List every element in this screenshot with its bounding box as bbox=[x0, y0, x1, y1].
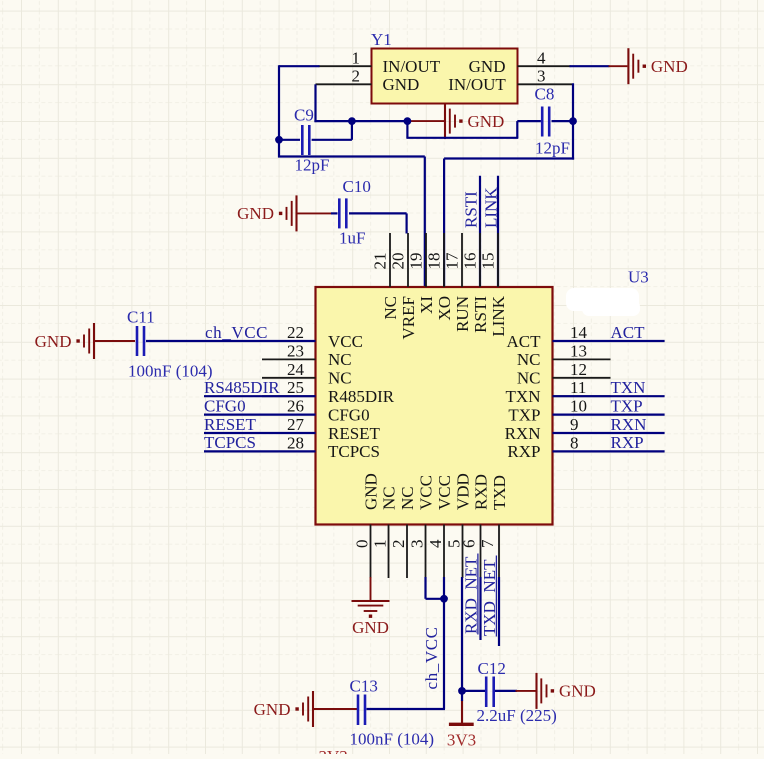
value 100nF (104) (C11) bbox=[128, 362, 213, 381]
svg-text:NC: NC bbox=[517, 350, 541, 369]
value 1uF bbox=[339, 229, 365, 248]
svg-text:25: 25 bbox=[287, 378, 304, 397]
wire TXD stub bbox=[498, 577, 500, 646]
svg-text:3: 3 bbox=[537, 67, 546, 86]
junction at C9 left bbox=[275, 136, 283, 144]
U3 pin 15 stub bbox=[497, 233, 499, 287]
U3 pin 18 stub bbox=[443, 233, 445, 287]
U3 pin name TCPCS bbox=[328, 442, 380, 461]
svg-text:3: 3 bbox=[408, 540, 427, 549]
svg-text:11: 11 bbox=[570, 378, 586, 397]
U3 pin name TXD (bottom) bbox=[490, 475, 509, 510]
wire pin3 down bbox=[572, 83, 574, 159]
svg-text:RXP: RXP bbox=[611, 433, 644, 452]
svg-text:C13: C13 bbox=[350, 677, 378, 696]
U3 pin name NC (bottom) bbox=[380, 486, 399, 510]
net label RXN bbox=[611, 415, 647, 434]
U3 pin 26 stub bbox=[262, 414, 316, 416]
net label LINK bbox=[481, 187, 500, 228]
U3 pin number 21 bbox=[371, 253, 390, 270]
svg-text:4: 4 bbox=[426, 539, 445, 548]
designator C11 bbox=[127, 308, 155, 327]
svg-text:C8: C8 bbox=[535, 85, 555, 104]
svg-text:20: 20 bbox=[389, 253, 408, 270]
svg-text:LINK: LINK bbox=[481, 187, 500, 228]
svg-text:CFG0: CFG0 bbox=[204, 396, 246, 415]
svg-text:R485DIR: R485DIR bbox=[328, 387, 395, 406]
svg-text:RESET: RESET bbox=[204, 415, 257, 434]
svg-text:12pF: 12pF bbox=[535, 139, 570, 158]
svg-text:4: 4 bbox=[537, 49, 546, 68]
U3 pin name RSTI (top) bbox=[471, 296, 490, 333]
svg-text:24: 24 bbox=[287, 360, 305, 379]
U3 pin 25 stub bbox=[262, 395, 316, 397]
U3 pin name VREF (top) bbox=[399, 296, 418, 339]
svg-text:2: 2 bbox=[352, 67, 361, 86]
U3 pin number 25 bbox=[287, 378, 304, 397]
svg-text:10: 10 bbox=[570, 397, 587, 416]
svg-text:GND: GND bbox=[352, 618, 389, 637]
net label RXD_NET bbox=[461, 554, 480, 635]
svg-text:28: 28 bbox=[287, 433, 304, 452]
U3 pin number 22 bbox=[287, 323, 304, 342]
wire VDD down bbox=[461, 577, 463, 691]
svg-text:LINK: LINK bbox=[489, 295, 508, 336]
svg-text:26: 26 bbox=[287, 397, 304, 416]
U3 pin number 7 bbox=[478, 539, 497, 548]
svg-text:TCPCS: TCPCS bbox=[204, 433, 256, 452]
wire VCC pin3 branch bbox=[426, 577, 445, 599]
power symbol 3V3 bbox=[447, 690, 476, 749]
svg-text:3V3: 3V3 bbox=[447, 730, 476, 749]
Y1 pin name GND (pin 4) bbox=[469, 57, 506, 76]
svg-text:ACT: ACT bbox=[507, 332, 542, 351]
ground symbol (C13) bbox=[254, 691, 357, 727]
U3 pin number 4 bbox=[426, 539, 445, 548]
U3 pin number 20 bbox=[389, 253, 408, 270]
wire TCPCS bbox=[204, 450, 316, 452]
svg-text:23: 23 bbox=[287, 341, 304, 360]
svg-text:XO: XO bbox=[435, 296, 454, 321]
junction pin2/GND bbox=[404, 117, 412, 125]
U3 pin name RXP (right) bbox=[507, 442, 540, 461]
svg-text:18: 18 bbox=[425, 253, 444, 270]
designator Y1 bbox=[371, 30, 392, 49]
wire TXN bbox=[553, 395, 665, 397]
svg-text:13: 13 bbox=[570, 341, 587, 360]
svg-text:VREF: VREF bbox=[399, 296, 418, 339]
op-amp U3 body bbox=[316, 287, 553, 525]
svg-text:NC: NC bbox=[398, 486, 417, 510]
wire XO net bbox=[444, 159, 574, 289]
value 12pF (C9) bbox=[295, 155, 330, 174]
U3 pin number 17 bbox=[443, 252, 462, 270]
ground symbol (C10) bbox=[237, 195, 337, 231]
U3 pin number 3 bbox=[408, 540, 427, 549]
svg-text:1: 1 bbox=[352, 49, 361, 68]
U3 pin number 23 bbox=[287, 341, 304, 360]
U3 pin 27 stub bbox=[262, 432, 316, 434]
U3 pin number 18 bbox=[425, 253, 444, 270]
svg-text:VCC: VCC bbox=[435, 475, 454, 510]
U3 pin name RESET bbox=[328, 424, 381, 443]
svg-text:NC: NC bbox=[328, 369, 352, 388]
net label RESET bbox=[204, 415, 257, 434]
U3 pin name RUN (top) bbox=[453, 296, 472, 332]
U3 pin number 11 bbox=[570, 378, 586, 397]
U3 pin name NC (right) bbox=[517, 369, 541, 388]
net label TXN bbox=[611, 378, 646, 397]
Y1 pin name IN/OUT (pin 3) bbox=[448, 75, 506, 94]
net label TCPCS bbox=[204, 433, 256, 452]
U3 pin 6 stub bbox=[480, 525, 482, 579]
net label ACT bbox=[611, 323, 646, 342]
svg-text:6: 6 bbox=[460, 540, 479, 549]
U3 pin 2 stub bbox=[406, 525, 408, 579]
U3 pin 16 stub bbox=[479, 233, 481, 287]
designator C9 bbox=[294, 105, 314, 124]
U3 pin number 15 bbox=[479, 253, 498, 270]
ground symbol (C11) bbox=[35, 323, 135, 359]
U3 pin name GND (bottom) bbox=[362, 473, 381, 510]
svg-text:GND: GND bbox=[237, 204, 274, 223]
svg-text:RXD: RXD bbox=[472, 474, 491, 510]
svg-text:19: 19 bbox=[407, 253, 426, 270]
U3 pin name XO (top) bbox=[435, 296, 454, 321]
svg-text:NC: NC bbox=[380, 486, 399, 510]
svg-text:100nF (104): 100nF (104) bbox=[350, 730, 435, 749]
U3 pin 28 stub bbox=[262, 450, 316, 452]
Y1 pin name IN/OUT (pin 1) bbox=[383, 57, 441, 76]
svg-text:RSTI: RSTI bbox=[462, 191, 481, 228]
U3 pin number 1 bbox=[371, 540, 390, 549]
svg-text:1: 1 bbox=[371, 540, 390, 549]
U3 pin 11 stub bbox=[553, 395, 611, 397]
U3 pin number 13 bbox=[570, 341, 587, 360]
U3 pin name R485DIR bbox=[328, 387, 395, 406]
wire RXP bbox=[553, 450, 665, 452]
U3 pin name NC (bottom) bbox=[398, 486, 417, 510]
capacitor C9 bbox=[302, 125, 309, 155]
U3 pin name RXD (bottom) bbox=[472, 474, 491, 510]
U3 pin 19 stub bbox=[425, 233, 427, 287]
wire C10 to VREF bbox=[349, 213, 407, 233]
svg-text:NC: NC bbox=[517, 369, 541, 388]
svg-text:2.2uF (225): 2.2uF (225) bbox=[477, 706, 557, 725]
wire gnd loop bbox=[406, 121, 541, 138]
U3 pin number 26 bbox=[287, 397, 304, 416]
U3 pin name VCC bbox=[328, 332, 363, 351]
Y1 pin 3 bbox=[518, 67, 573, 86]
svg-text:RXN: RXN bbox=[505, 424, 541, 443]
U3 pin 5 stub bbox=[462, 525, 464, 579]
svg-text:VCC: VCC bbox=[417, 475, 436, 510]
U3 pin name TXN (right) bbox=[506, 387, 541, 406]
svg-text:GND: GND bbox=[468, 112, 505, 131]
svg-text:RXN: RXN bbox=[611, 415, 647, 434]
U3 pin name XI (top) bbox=[417, 296, 436, 314]
U3 pin name VDD (bottom) bbox=[454, 473, 473, 510]
svg-text:100nF (104): 100nF (104) bbox=[128, 362, 213, 381]
svg-text:RS485DIR: RS485DIR bbox=[204, 378, 280, 397]
value 2.2uF (225) bbox=[477, 706, 557, 725]
svg-text:RSTI: RSTI bbox=[471, 296, 490, 333]
capacitor C8 bbox=[542, 107, 549, 137]
svg-text:ACT: ACT bbox=[611, 323, 646, 342]
svg-text:C12: C12 bbox=[478, 659, 506, 678]
svg-text:C10: C10 bbox=[343, 177, 371, 196]
svg-text:ch_VCC: ch_VCC bbox=[205, 323, 268, 342]
wire pin1 to C9 left (vertical) bbox=[279, 65, 320, 157]
svg-text:GND: GND bbox=[469, 57, 506, 76]
net label CFG0 bbox=[204, 396, 246, 415]
ground symbol (U3 GND pin) bbox=[352, 577, 390, 637]
svg-text:VCC: VCC bbox=[328, 332, 363, 351]
wire RSTI bbox=[479, 176, 481, 288]
svg-text:8: 8 bbox=[570, 433, 579, 452]
U3 pin name ACT (right) bbox=[507, 332, 542, 351]
U3 pin 24 stub bbox=[262, 377, 316, 379]
svg-text:RESET: RESET bbox=[328, 424, 381, 443]
net label TXD_NET bbox=[480, 556, 499, 637]
svg-text:IN/OUT: IN/OUT bbox=[448, 75, 506, 94]
U3 pin name RXN (right) bbox=[505, 424, 541, 443]
U3 pin number 24 bbox=[287, 360, 305, 379]
wire RESET bbox=[204, 432, 316, 434]
U3 pin name VCC (bottom) bbox=[435, 475, 454, 510]
junction C8/pin3 bbox=[569, 117, 577, 125]
U3 pin number 16 bbox=[461, 253, 480, 270]
svg-text:3V3: 3V3 bbox=[319, 747, 348, 754]
junction pin2/C9 bbox=[348, 117, 356, 125]
U3 pin name NC bbox=[328, 350, 352, 369]
svg-text:16: 16 bbox=[461, 253, 480, 270]
U3 pin number 0 bbox=[353, 540, 372, 549]
svg-text:C11: C11 bbox=[127, 308, 155, 327]
U3 pin 12 stub bbox=[553, 377, 611, 379]
wire XI net bbox=[278, 157, 425, 289]
white patch bbox=[566, 288, 640, 316]
net label RSTI bbox=[462, 191, 481, 228]
svg-text:TXN: TXN bbox=[506, 387, 541, 406]
wire ch_VCC vertical bbox=[367, 577, 446, 709]
wire CFG0 bbox=[204, 414, 316, 416]
capacitor C10 bbox=[339, 198, 346, 228]
svg-text:NC: NC bbox=[328, 350, 352, 369]
U3 pin number 27 bbox=[287, 415, 305, 434]
svg-text:GND: GND bbox=[35, 332, 72, 351]
svg-text:TXP: TXP bbox=[611, 396, 643, 415]
value 12pF (C8) bbox=[535, 139, 570, 158]
svg-text:21: 21 bbox=[371, 253, 390, 270]
wire pin4 to GND bbox=[570, 65, 610, 67]
net label ch_VCC bbox=[205, 323, 268, 342]
capacitor C12 bbox=[486, 677, 494, 708]
U3 pin name NC bbox=[328, 369, 352, 388]
U3 pin number 8 bbox=[570, 433, 579, 452]
net label TXP bbox=[611, 396, 643, 415]
wire pin2 down bbox=[314, 84, 316, 122]
U3 pin name TXP (right) bbox=[508, 405, 540, 424]
net label RS485DIR bbox=[204, 378, 280, 397]
U3 pin 9 stub bbox=[553, 432, 611, 434]
U3 pin 10 stub bbox=[553, 414, 611, 416]
svg-text:Y1: Y1 bbox=[371, 30, 392, 49]
svg-text:14: 14 bbox=[570, 323, 588, 342]
svg-text:TXD: TXD bbox=[490, 475, 509, 510]
svg-text:VDD: VDD bbox=[454, 473, 473, 510]
U3 pin 14 stub bbox=[553, 340, 611, 342]
svg-text:GND: GND bbox=[254, 700, 291, 719]
U3 pin name LINK (top) bbox=[489, 295, 508, 336]
U3 pin 20 stub bbox=[407, 233, 409, 287]
svg-text:TXP: TXP bbox=[508, 405, 540, 424]
U3 pin number 19 bbox=[407, 253, 426, 270]
svg-text:1uF: 1uF bbox=[339, 229, 365, 248]
U3 pin number 6 bbox=[460, 540, 479, 549]
wire VDD to C12 bbox=[462, 690, 485, 692]
power label 3V3 (clipped, bottom) bbox=[319, 747, 348, 759]
U3 pin 7 stub bbox=[498, 525, 500, 579]
U3 pin 22 stub bbox=[262, 340, 316, 342]
svg-text:12pF: 12pF bbox=[295, 155, 330, 174]
designator C10 bbox=[343, 177, 371, 196]
svg-text:7: 7 bbox=[478, 539, 497, 548]
U3 pin number 5 bbox=[445, 540, 464, 549]
U3 pin number 9 bbox=[570, 415, 579, 434]
svg-text:ch_VCC: ch_VCC bbox=[422, 626, 441, 689]
designator C13 bbox=[350, 677, 378, 696]
U3 pin name NC (top) bbox=[381, 296, 400, 320]
wire RS485DIR bbox=[204, 395, 316, 397]
svg-text:RUN: RUN bbox=[453, 296, 472, 332]
Y1 pin 4 bbox=[518, 49, 571, 68]
svg-text:CFG0: CFG0 bbox=[328, 405, 370, 424]
U3 pin 1 stub bbox=[388, 525, 390, 579]
U3 pin 3 stub bbox=[425, 525, 427, 579]
net label ch_VCC (vertical) bbox=[422, 626, 441, 689]
U3 pin number 14 bbox=[570, 323, 588, 342]
ground symbol (crystal) bbox=[408, 103, 504, 139]
designator C12 bbox=[478, 659, 506, 678]
junction VCC pins bbox=[440, 595, 448, 603]
wire LINK bbox=[497, 176, 499, 288]
U3 pin number 28 bbox=[287, 433, 304, 452]
U3 pin 4 stub bbox=[443, 525, 445, 579]
svg-text:12: 12 bbox=[570, 360, 587, 379]
wire C9 right bbox=[312, 120, 352, 140]
U3 pin number 10 bbox=[570, 397, 587, 416]
U3 pin number 2 bbox=[389, 540, 408, 549]
U3 pin 17 stub bbox=[461, 233, 463, 287]
svg-text:22: 22 bbox=[287, 323, 304, 342]
crystal Y1 body bbox=[372, 49, 518, 104]
U3 pin 21 stub bbox=[389, 233, 391, 287]
U3 pin 8 stub bbox=[553, 450, 611, 452]
svg-text:RXP: RXP bbox=[507, 442, 540, 461]
svg-text:27: 27 bbox=[287, 415, 305, 434]
svg-text:17: 17 bbox=[443, 252, 462, 270]
Y1 pin 2 bbox=[316, 67, 372, 86]
svg-text:IN/OUT: IN/OUT bbox=[383, 57, 441, 76]
svg-text:15: 15 bbox=[479, 253, 498, 270]
Y1 pin name GND (pin 2) bbox=[383, 75, 420, 94]
junction VDD/C12 bbox=[458, 687, 466, 695]
U3 pin name VCC (bottom) bbox=[417, 475, 436, 510]
wire TXP bbox=[553, 414, 665, 416]
svg-text:TCPCS: TCPCS bbox=[328, 442, 380, 461]
U3 pin 23 stub bbox=[262, 358, 316, 360]
designator C8 bbox=[535, 85, 555, 104]
U3 pin number 12 bbox=[570, 360, 587, 379]
ground symbol (C12) bbox=[495, 673, 596, 709]
U3 pin 0 stub bbox=[370, 525, 372, 579]
svg-text:C9: C9 bbox=[294, 105, 314, 124]
wire ch_VCC (pin22) bbox=[146, 340, 316, 342]
svg-text:GND: GND bbox=[651, 57, 688, 76]
wire pin2 net horizontal bbox=[314, 120, 407, 122]
capacitor C11 bbox=[137, 326, 144, 356]
wire RXD stub bbox=[479, 577, 481, 640]
wire ACT bbox=[553, 340, 665, 342]
U3 pin 13 stub bbox=[553, 358, 611, 360]
wire C8 right bbox=[552, 120, 574, 122]
svg-text:0: 0 bbox=[353, 540, 372, 549]
svg-text:GND: GND bbox=[383, 75, 420, 94]
wire C9 left bbox=[278, 139, 300, 141]
Y1 pin 1 bbox=[319, 49, 372, 68]
svg-text:U3: U3 bbox=[628, 268, 649, 287]
capacitor C13 bbox=[358, 695, 365, 726]
svg-text:2: 2 bbox=[389, 540, 408, 549]
svg-text:TXN: TXN bbox=[611, 378, 646, 397]
U3 pin name NC (right) bbox=[517, 350, 541, 369]
ground symbol (top right) bbox=[609, 48, 688, 84]
svg-text:GND: GND bbox=[362, 473, 381, 510]
svg-text:GND: GND bbox=[559, 682, 596, 701]
svg-text:XI: XI bbox=[417, 296, 436, 314]
designator U3 bbox=[628, 268, 649, 287]
svg-text:9: 9 bbox=[570, 415, 579, 434]
value 100nF (104) (C13) bbox=[350, 730, 435, 749]
U3 pin name CFG0 bbox=[328, 405, 370, 424]
svg-text:NC: NC bbox=[381, 296, 400, 320]
net label RXP bbox=[611, 433, 644, 452]
wire RXN bbox=[553, 432, 665, 434]
